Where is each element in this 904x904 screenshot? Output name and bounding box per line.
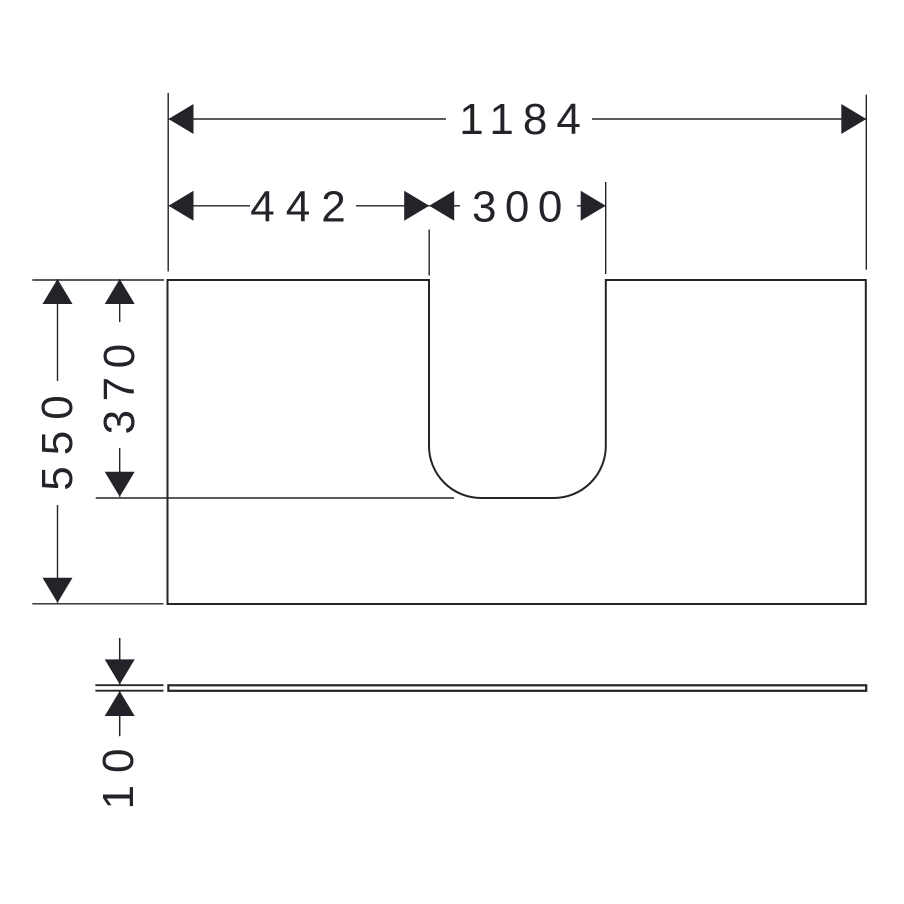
extension line right vertical [865, 95, 867, 270]
dimension 370 line [119, 279, 121, 497]
dimension 442 left arrow [169, 191, 194, 221]
svg-text:370: 370 [95, 335, 144, 434]
console plate top view outline with U cutout [168, 280, 866, 604]
extension line cutout-right vertical [605, 182, 607, 274]
extension line plate-top horizontal [95, 684, 163, 686]
dimension 10 lower line [119, 691, 121, 736]
dimension 300 line [429, 205, 606, 207]
dimension 370 bottom arrow [105, 472, 135, 497]
svg-text:1184: 1184 [459, 95, 590, 144]
dimension 10 lower arrow [105, 691, 135, 716]
dimension 442 line [169, 205, 430, 207]
svg-text:300: 300 [472, 182, 571, 231]
dimension 1184 left arrow [169, 104, 194, 134]
side view plate [168, 685, 866, 691]
svg-text:10: 10 [94, 737, 143, 810]
dimension 1184 line [169, 118, 867, 120]
dimension 300 right arrow [581, 191, 606, 221]
dimension 10 upper arrow [105, 659, 135, 684]
dimension 550 top arrow [43, 279, 73, 304]
extension line top horizontal [32, 279, 164, 281]
dimension 442 right arrow [404, 191, 429, 221]
dimension 550 label [37, 381, 79, 505]
dimension 550 bottom arrow [43, 578, 73, 603]
dimension 370 label [99, 322, 141, 448]
dimension 442 label [250, 184, 356, 228]
dimension 300 left arrow [429, 191, 454, 221]
extension line plate-bottom horizontal [95, 690, 163, 692]
dimension 370 top arrow [105, 279, 135, 304]
svg-text:550: 550 [33, 384, 82, 490]
dimension 1184 right arrow [841, 104, 866, 134]
dimension 10 upper line [119, 638, 121, 684]
extension line cutout-bottom horizontal [96, 497, 454, 499]
svg-text:442: 442 [250, 182, 356, 231]
dimension 1184 label [446, 97, 592, 141]
extension line cutout-left vertical [428, 230, 430, 276]
dimension 550 line [57, 279, 59, 603]
dimension 300 label [460, 184, 577, 228]
extension line bottom horizontal [32, 603, 163, 605]
extension line left vertical [167, 93, 169, 272]
